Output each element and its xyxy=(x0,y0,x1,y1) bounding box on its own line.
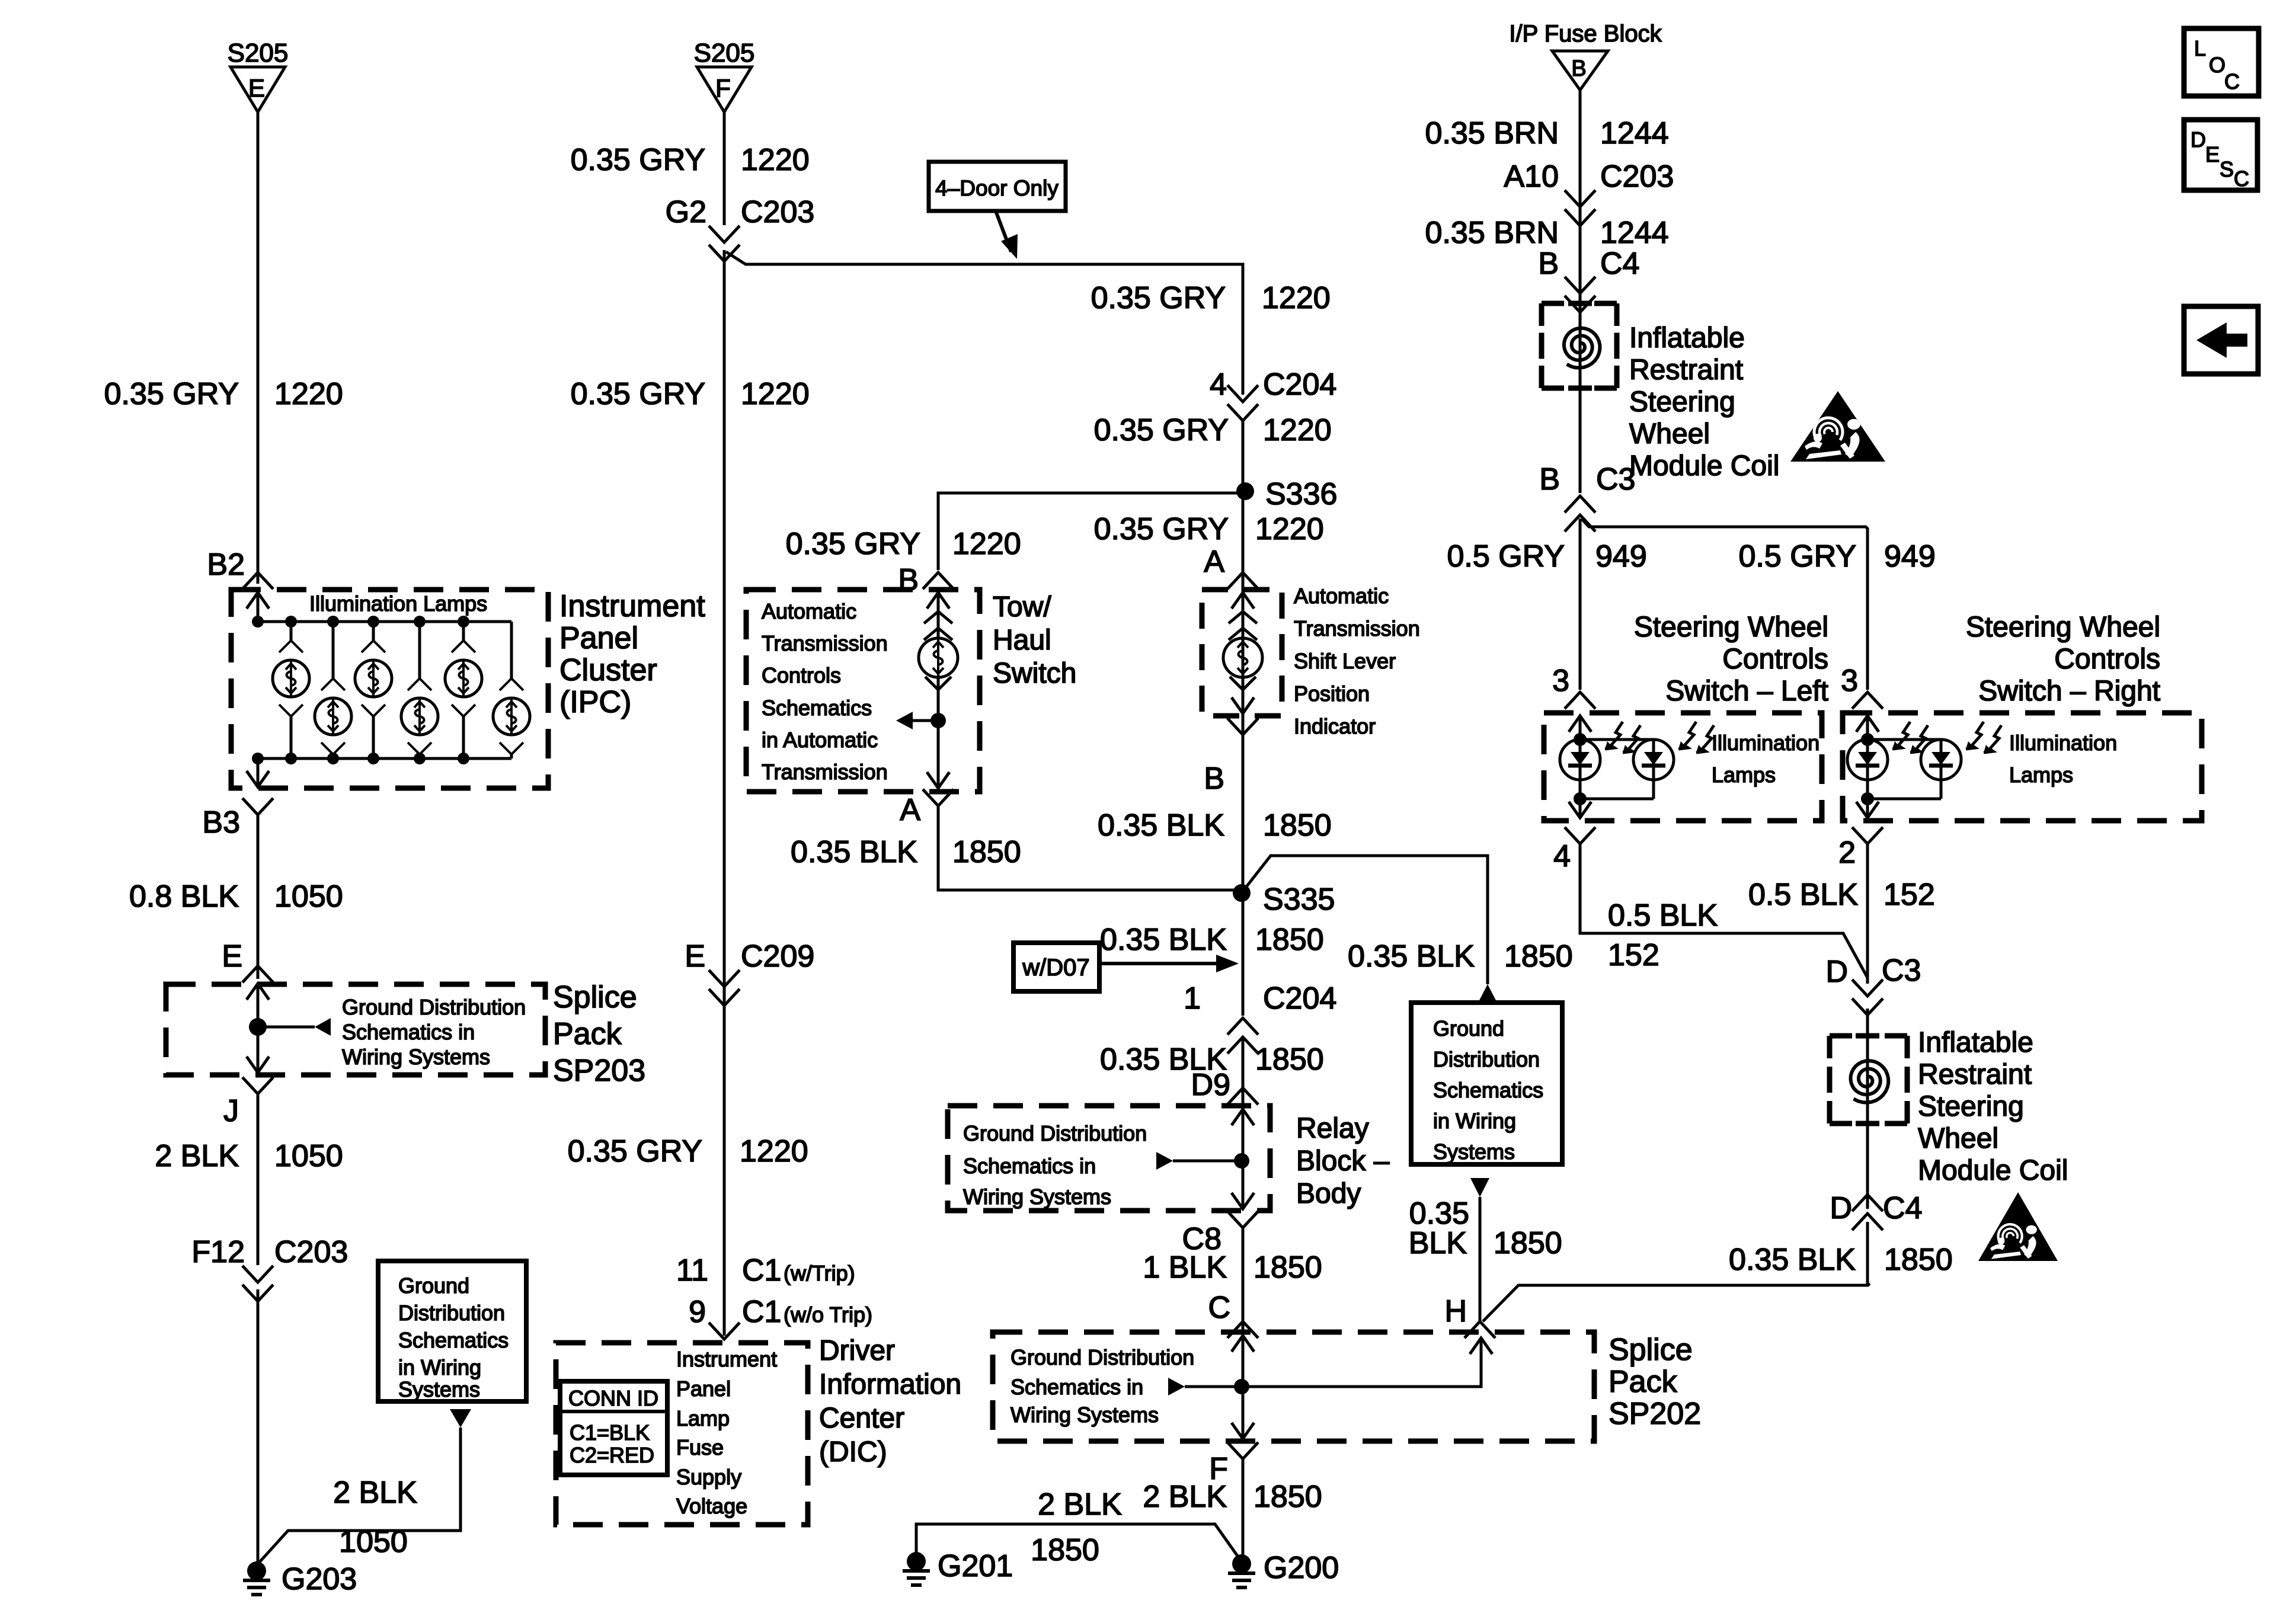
svg-text:Lamps: Lamps xyxy=(2009,763,2073,787)
svg-text:Haul: Haul xyxy=(993,625,1051,656)
svg-text:949: 949 xyxy=(1884,539,1936,574)
label H xyxy=(1444,1294,1467,1329)
svg-text:Controls: Controls xyxy=(2054,644,2160,675)
label B3 xyxy=(202,805,240,840)
left switch wire to D C3 xyxy=(1580,844,1868,978)
label 0.35 BRN 1244 (2nd) xyxy=(1425,216,1669,250)
svg-text:E: E xyxy=(248,74,265,102)
svg-text:1220: 1220 xyxy=(274,377,343,411)
svg-text:0.35 BLK: 0.35 BLK xyxy=(1729,1243,1856,1277)
svg-text:1850: 1850 xyxy=(1263,808,1332,843)
label 0.35 GRY 1220 (tow/haul) xyxy=(786,527,1021,561)
svg-text:Module Coil: Module Coil xyxy=(1918,1155,2068,1186)
label 2 BLK 1850 (G200) xyxy=(1143,1480,1322,1514)
connector chevron B3 xyxy=(242,798,273,815)
svg-text:C: C xyxy=(2234,167,2249,191)
label F12 C203 xyxy=(191,1235,348,1269)
svg-text:4: 4 xyxy=(1210,367,1227,402)
connector C203 double chevron (G2) xyxy=(709,226,740,261)
label 1850 (G201 wire) xyxy=(1031,1533,1099,1567)
Ground Distribution dashed box (relay) xyxy=(948,1106,1270,1211)
label 11 C1 (w/Trip) xyxy=(676,1253,855,1288)
svg-text:A10: A10 xyxy=(1504,159,1559,194)
label Illumination Lamps (left switch) xyxy=(1712,731,1819,787)
svg-text:1 BLK: 1 BLK xyxy=(1143,1250,1227,1285)
svg-text:Illumination: Illumination xyxy=(2009,731,2117,755)
svg-text:2 BLK: 2 BLK xyxy=(1143,1480,1227,1514)
svg-text:1220: 1220 xyxy=(740,1134,808,1169)
text Automatic Transmission Controls Schematics in Automatic Transmission xyxy=(762,599,888,784)
svg-text:C2=RED: C2=RED xyxy=(570,1443,654,1467)
label 0.35 GRY 1220 (F top) xyxy=(571,143,810,177)
svg-text:E: E xyxy=(2205,142,2220,167)
svg-text:1850: 1850 xyxy=(1031,1533,1099,1567)
relay wire arrows + junction xyxy=(1156,1109,1254,1209)
connector C203 double chevron (A10) xyxy=(1565,190,1595,226)
svg-text:D: D xyxy=(1830,1191,1852,1225)
svg-text:Cluster: Cluster xyxy=(559,653,657,687)
svg-text:Schematics in: Schematics in xyxy=(342,1020,475,1044)
svg-text:SP203: SP203 xyxy=(553,1054,645,1088)
svg-text:Supply: Supply xyxy=(676,1465,741,1489)
svg-text:Ground Distribution: Ground Distribution xyxy=(342,995,526,1019)
label 0.35 BLK 1850 (relay in) xyxy=(1100,1042,1324,1077)
svg-text:S205: S205 xyxy=(694,39,755,68)
svg-text:Driver: Driver xyxy=(819,1335,895,1366)
label C xyxy=(1208,1291,1230,1325)
wire B3 to E xyxy=(257,815,260,979)
svg-text:S336: S336 xyxy=(1265,477,1337,511)
label Illumination Lamps (right switch) xyxy=(2009,731,2117,787)
label 0.35 BRN 1244 (top) xyxy=(1425,116,1669,151)
label A (tow/haul out) xyxy=(900,793,920,827)
label 0.35 GRY 1220 (below S336) xyxy=(1094,512,1324,546)
svg-text:Instrument: Instrument xyxy=(676,1347,777,1371)
SP202 main wire arrows xyxy=(1232,1336,1254,1439)
svg-text:3: 3 xyxy=(1552,664,1569,698)
connector chevron 3 left xyxy=(1565,692,1595,709)
label 0.35 BLK 1850 (tow/haul out) xyxy=(791,835,1021,869)
label B (shift lever) xyxy=(1204,761,1224,796)
svg-text:9: 9 xyxy=(689,1295,706,1329)
connector chevron J xyxy=(242,1077,273,1094)
svg-text:O: O xyxy=(2209,53,2225,77)
connector chevron F (G200) xyxy=(1227,1442,1258,1459)
wire shift lever to S335 xyxy=(1242,735,1245,1016)
svg-text:1050: 1050 xyxy=(274,879,343,914)
splice S335 xyxy=(1233,882,1335,917)
svg-text:w/D07: w/D07 xyxy=(1022,955,1089,981)
svg-text:Schematics in: Schematics in xyxy=(1011,1375,1143,1399)
label Tow/ Haul Switch xyxy=(993,591,1076,689)
svg-text:Shift Lever: Shift Lever xyxy=(1294,649,1396,673)
svg-text:F12: F12 xyxy=(191,1235,245,1269)
svg-text:D: D xyxy=(2191,127,2206,152)
svg-text:0.35 GRY: 0.35 GRY xyxy=(571,377,705,411)
svg-text:0.35 BLK: 0.35 BLK xyxy=(791,835,917,869)
connector C209 double chevron xyxy=(709,970,740,1006)
svg-text:Steering: Steering xyxy=(1918,1091,2024,1122)
svg-text:J: J xyxy=(223,1094,239,1128)
label 4 xyxy=(1553,839,1571,873)
svg-text:C1: C1 xyxy=(742,1253,781,1288)
label 3 (left) xyxy=(1552,664,1569,698)
label Inflatable Restraint Steering Wheel Module Coil (2) xyxy=(1918,1027,2068,1186)
svg-text:C: C xyxy=(2224,69,2240,94)
svg-text:152: 152 xyxy=(1608,938,1659,972)
ground G200 xyxy=(1228,1551,1339,1587)
wire C8 to C xyxy=(1242,1228,1245,1331)
svg-text:1220: 1220 xyxy=(1255,512,1324,546)
svg-text:S: S xyxy=(2220,157,2234,181)
svg-text:Splice: Splice xyxy=(553,980,637,1014)
label Splice Pack SP203 xyxy=(553,980,645,1088)
svg-text:Wheel: Wheel xyxy=(1918,1123,1998,1154)
DIC dashed box xyxy=(556,1343,808,1525)
connector chevron E xyxy=(242,966,273,982)
svg-text:Ground Distribution: Ground Distribution xyxy=(1011,1345,1194,1369)
svg-text:Ground: Ground xyxy=(398,1273,469,1298)
SP203 junction dot + ref arrow xyxy=(249,1018,331,1036)
svg-text:Center: Center xyxy=(819,1403,904,1434)
svg-text:A: A xyxy=(900,793,920,827)
svg-text:0.35 BLK: 0.35 BLK xyxy=(1098,808,1224,843)
arrow into SP203 xyxy=(247,984,269,1027)
label B C4 xyxy=(1538,247,1639,281)
svg-text:0.35 GRY: 0.35 GRY xyxy=(104,377,239,411)
svg-text:B: B xyxy=(1204,761,1224,796)
svg-text:(w/Trip): (w/Trip) xyxy=(784,1261,855,1285)
wire coil 2 to H xyxy=(1868,1222,1870,1285)
coil 1 spiral xyxy=(1564,328,1600,368)
svg-text:Illumination: Illumination xyxy=(1712,731,1819,755)
svg-text:1850: 1850 xyxy=(1253,1480,1322,1514)
svg-text:1850: 1850 xyxy=(1255,1042,1324,1077)
label 0.5 GRY 949 (left) xyxy=(1447,539,1647,574)
label D C3 (coil 2) xyxy=(1825,953,1921,989)
svg-text:Automatic: Automatic xyxy=(762,599,856,623)
svg-text:Block –: Block – xyxy=(1296,1145,1390,1177)
connector chevron C8 xyxy=(1227,1211,1258,1228)
svg-text:3: 3 xyxy=(1841,664,1858,698)
svg-text:S205: S205 xyxy=(228,39,289,68)
label Ground Distribution Schematics in Wiring Systems (SP203) xyxy=(342,995,526,1069)
label 0.35 BLK 1850 (branch) xyxy=(1348,939,1573,974)
label 0.5 GRY 949 (right) xyxy=(1739,539,1936,574)
label B2 xyxy=(207,548,245,582)
label B C3 xyxy=(1539,462,1635,497)
text Ground Distribution Schematics in Wiring Systems (bottom left) xyxy=(398,1273,509,1401)
svg-text:E: E xyxy=(222,939,242,974)
svg-text:B: B xyxy=(1539,462,1560,497)
svg-text:in Wiring: in Wiring xyxy=(1433,1109,1516,1133)
label G2 C203 xyxy=(666,195,815,229)
label Illumination Lamps xyxy=(309,591,487,616)
label A (shift lever) xyxy=(1204,545,1224,579)
wire F below C203 xyxy=(723,250,726,1336)
svg-text:Wiring Systems: Wiring Systems xyxy=(1011,1403,1159,1427)
svg-text:0.5 BLK: 0.5 BLK xyxy=(1748,878,1858,912)
svg-text:CONN ID: CONN ID xyxy=(568,1386,658,1410)
svg-text:Body: Body xyxy=(1296,1178,1361,1209)
svg-text:0.35 GRY: 0.35 GRY xyxy=(1094,512,1229,546)
label 0.35 BLK 1850 (H wire) xyxy=(1729,1243,1953,1277)
svg-text:Relay: Relay xyxy=(1296,1113,1369,1144)
svg-text:Lamp: Lamp xyxy=(676,1406,730,1430)
connector chevron B (shift lever out) xyxy=(1227,718,1258,735)
svg-text:B: B xyxy=(1571,56,1586,81)
svg-text:E: E xyxy=(685,939,705,974)
connector C204 double chevron (4) xyxy=(1227,385,1258,421)
svg-text:1: 1 xyxy=(1184,981,1201,1016)
w/D07 arrow xyxy=(1099,955,1239,972)
connector Y into DIC xyxy=(709,1323,740,1339)
svg-text:G201: G201 xyxy=(938,1549,1013,1583)
label Steering Wheel Controls Switch - Left xyxy=(1634,612,1828,707)
shift lever indicator lamp branch xyxy=(1223,593,1262,713)
svg-text:C203: C203 xyxy=(1600,159,1674,194)
wire S336 to Tow/Haul riser xyxy=(938,493,1244,570)
label 2 BLK (G201 wire) xyxy=(1038,1487,1122,1522)
text Ground Distribution Schematics in Wiring Systems (relay) xyxy=(963,1121,1147,1209)
svg-text:(IPC): (IPC) xyxy=(559,685,631,719)
SP202 ref arrow + wire to H riser xyxy=(1168,1338,1492,1395)
label F xyxy=(1209,1452,1228,1486)
arrow out of IPC xyxy=(247,758,269,787)
svg-text:D9: D9 xyxy=(1191,1068,1230,1102)
wire J to F12 xyxy=(257,1094,260,1265)
connector triangle S205 E xyxy=(228,39,289,112)
svg-text:I/P Fuse Block: I/P Fuse Block xyxy=(1509,21,1662,47)
connector chevron B tow/haul xyxy=(923,572,954,589)
tow/haul junction + left ref arrow xyxy=(896,712,949,788)
svg-text:152: 152 xyxy=(1884,878,1935,912)
svg-text:Transmission: Transmission xyxy=(762,631,888,655)
IPC dashed box xyxy=(231,590,548,788)
label D C4 xyxy=(1830,1191,1922,1225)
svg-text:1850: 1850 xyxy=(1504,939,1573,974)
svg-text:2 BLK: 2 BLK xyxy=(333,1475,417,1510)
wire S335 branch right to GD box xyxy=(1243,856,1488,984)
svg-text:1220: 1220 xyxy=(952,527,1021,561)
svg-text:C203: C203 xyxy=(274,1235,348,1269)
label 2 xyxy=(1838,836,1856,870)
w/D07 callout box xyxy=(1013,943,1099,991)
svg-text:C: C xyxy=(1208,1291,1230,1325)
connector chevron A shift lever xyxy=(1227,572,1258,589)
svg-text:Automatic: Automatic xyxy=(1294,584,1389,608)
svg-text:Schematics: Schematics xyxy=(1433,1078,1543,1102)
svg-text:0.35 BLK: 0.35 BLK xyxy=(1100,923,1227,957)
svg-text:0.5 GRY: 0.5 GRY xyxy=(1739,539,1856,574)
svg-text:Distribution: Distribution xyxy=(398,1301,505,1325)
arrow to Ground Distribution box (left) xyxy=(450,1409,471,1427)
text Ground Distribution Schematics in Wiring Systems (SP202) xyxy=(1011,1345,1194,1427)
SIR warning triangle 1 xyxy=(1790,391,1885,462)
svg-text:C1=BLK: C1=BLK xyxy=(570,1420,650,1445)
svg-text:C209: C209 xyxy=(741,939,814,974)
svg-text:Fuse: Fuse xyxy=(676,1435,724,1459)
svg-text:Schematics: Schematics xyxy=(762,696,872,720)
label D9 xyxy=(1191,1068,1230,1102)
svg-text:C203: C203 xyxy=(741,195,814,229)
svg-text:Splice: Splice xyxy=(1609,1333,1693,1367)
label 0.5 BLK (left horizontal) xyxy=(1608,898,1718,972)
callout arrow xyxy=(996,211,1018,259)
svg-text:Switch – Right: Switch – Right xyxy=(1978,676,2160,707)
connector chevron A (tow/haul out) xyxy=(923,789,954,806)
arrow into IPC xyxy=(247,593,269,622)
svg-text:A: A xyxy=(1204,545,1224,579)
label Inflatable Restraint Steering Wheel Module Coil (1) xyxy=(1629,322,1779,482)
svg-text:2 BLK: 2 BLK xyxy=(1038,1487,1122,1522)
connector C204 double chevron (1) xyxy=(1227,1018,1258,1054)
svg-text:Illumination Lamps: Illumination Lamps xyxy=(309,591,487,616)
svg-text:Panel: Panel xyxy=(676,1377,731,1401)
svg-text:949: 949 xyxy=(1595,539,1647,574)
connector triangle I/P fuse block B xyxy=(1552,51,1608,90)
svg-text:Controls: Controls xyxy=(762,663,841,687)
svg-text:Ground: Ground xyxy=(1433,1016,1504,1041)
Steering Wheel Controls Switch Right dashed box + LED illumination lamps xyxy=(1843,713,2202,821)
svg-text:1850: 1850 xyxy=(1255,923,1324,957)
connector triangle S205 F xyxy=(694,39,755,112)
label 9 C1 (w/o Trip) xyxy=(689,1295,872,1329)
label C8 xyxy=(1182,1222,1221,1256)
label E C209 xyxy=(685,939,814,974)
text Instrument Panel Lamp Fuse Supply Voltage xyxy=(676,1347,777,1518)
Ground Distribution dashed box (SP202) xyxy=(993,1332,1594,1441)
label J xyxy=(223,1094,239,1128)
ground G203 xyxy=(243,1561,357,1596)
svg-text:4–Door Only: 4–Door Only xyxy=(935,176,1059,200)
svg-text:Restraint: Restraint xyxy=(1918,1059,2032,1090)
svg-text:C4: C4 xyxy=(1600,247,1639,281)
svg-text:Pack: Pack xyxy=(1609,1365,1678,1399)
svg-text:1244: 1244 xyxy=(1600,116,1669,151)
svg-text:1244: 1244 xyxy=(1600,216,1669,250)
svg-text:1850: 1850 xyxy=(1494,1226,1562,1260)
svg-text:Transmission: Transmission xyxy=(1294,616,1420,641)
wire G201 to G200 xyxy=(916,1524,1239,1558)
svg-text:Pack: Pack xyxy=(553,1017,622,1051)
label 1 BLK 1850 xyxy=(1143,1250,1322,1285)
svg-text:D: D xyxy=(1825,955,1848,989)
svg-text:2: 2 xyxy=(1838,836,1856,870)
label 0.35 GRY 1220 (DIC wire) xyxy=(568,1134,808,1169)
IPC lamp branch wires xyxy=(291,622,511,758)
label 1 C204 xyxy=(1184,981,1336,1016)
svg-text:Information: Information xyxy=(819,1369,961,1400)
wire F to G200 xyxy=(1242,1459,1245,1560)
svg-text:1850: 1850 xyxy=(1253,1250,1322,1285)
IPC lamps (6 illumination lamps) xyxy=(273,641,530,754)
svg-text:11: 11 xyxy=(676,1253,708,1288)
svg-text:0.35 GRY: 0.35 GRY xyxy=(571,143,705,177)
IPC top bus / bottom bus with junction dots xyxy=(252,616,511,764)
right switch wire down xyxy=(1866,844,1869,984)
label Steering Wheel Controls Switch - Right xyxy=(1966,612,2160,707)
connector chevron C xyxy=(1227,1321,1258,1338)
text Automatic Transmission Shift Lever Position Indicator xyxy=(1294,584,1420,738)
label 0.35 BLK 1850 (shift lever) xyxy=(1098,808,1332,843)
svg-text:Lamps: Lamps xyxy=(1712,763,1776,787)
Ground Distribution solid box (center) xyxy=(1411,1003,1562,1164)
svg-text:Systems: Systems xyxy=(398,1377,480,1401)
label 0.35 GRY 1220 (F mid) xyxy=(571,377,810,411)
svg-text:(DIC): (DIC) xyxy=(819,1436,887,1468)
svg-text:B: B xyxy=(1538,247,1559,281)
CONN ID table xyxy=(560,1381,667,1475)
label 0.35 GRY 1220 (above S336) xyxy=(1094,413,1332,447)
label 0.35 BLK 1850 (stacked) xyxy=(1409,1196,1562,1260)
svg-text:1220: 1220 xyxy=(1262,281,1331,315)
svg-text:0.35 BLK: 0.35 BLK xyxy=(1348,939,1475,974)
DESC legend box xyxy=(2184,120,2257,191)
label E xyxy=(222,939,242,974)
svg-text:Wheel: Wheel xyxy=(1629,418,1710,450)
label 0.35 GRY 1220 (E wire) xyxy=(104,377,343,411)
svg-text:in Automatic: in Automatic xyxy=(762,728,878,752)
LOC legend box xyxy=(2184,28,2259,96)
label 0.5 BLK 152 (right) xyxy=(1748,878,1935,912)
back arrow box xyxy=(2184,306,2258,374)
svg-text:Steering Wheel: Steering Wheel xyxy=(1966,612,2160,643)
label I/P Fuse Block xyxy=(1509,21,1662,47)
label Relay Block - Body xyxy=(1296,1113,1390,1209)
svg-text:SP202: SP202 xyxy=(1609,1397,1701,1431)
arrow into Ground Distribution box (center) xyxy=(1478,984,1497,1003)
svg-text:Transmission: Transmission xyxy=(762,760,888,784)
label A10 C203 xyxy=(1504,159,1674,194)
svg-text:Switch: Switch xyxy=(993,658,1076,689)
svg-text:C204: C204 xyxy=(1263,981,1336,1016)
svg-text:0.35 BRN: 0.35 BRN xyxy=(1425,116,1559,151)
label 0.35 GRY 1220 (4-door) xyxy=(1091,281,1331,315)
svg-text:1850: 1850 xyxy=(952,835,1021,869)
Inflatable Restraint coil 2 dashed box xyxy=(1830,1036,1907,1124)
Splice Pack SP203 dashed box xyxy=(166,984,545,1075)
svg-text:C1: C1 xyxy=(742,1295,781,1329)
svg-text:1220: 1220 xyxy=(741,377,810,411)
svg-text:0.35 GRY: 0.35 GRY xyxy=(786,527,920,561)
branch to right switch xyxy=(1581,518,1868,690)
connector chevron B2 xyxy=(242,572,273,589)
4-Door Only callout box xyxy=(929,162,1066,211)
svg-text:Indicator: Indicator xyxy=(1294,714,1376,738)
svg-text:Restraint: Restraint xyxy=(1629,354,1743,386)
svg-text:0.35 GRY: 0.35 GRY xyxy=(568,1134,702,1169)
label 3 (right) xyxy=(1841,664,1858,698)
svg-text:B2: B2 xyxy=(207,548,245,582)
svg-text:Steering Wheel: Steering Wheel xyxy=(1634,612,1828,643)
svg-text:Inflatable: Inflatable xyxy=(1629,322,1745,354)
label 2 BLK 1050 (J wire) xyxy=(155,1139,343,1173)
svg-text:Systems: Systems xyxy=(1433,1140,1515,1164)
arrow out of SP203 xyxy=(247,1027,269,1073)
wire C204 to S336 xyxy=(1242,420,1245,886)
connector C203 double chevron (F12) xyxy=(242,1266,273,1301)
wire GD box to H xyxy=(1470,1178,1489,1323)
svg-text:(w/o Trip): (w/o Trip) xyxy=(784,1302,872,1327)
text Ground Distribution Schematics in Wiring Systems (center) xyxy=(1433,1016,1543,1164)
label Splice Pack SP202 xyxy=(1609,1333,1701,1431)
svg-text:C3: C3 xyxy=(1596,462,1635,497)
svg-text:0.5 GRY: 0.5 GRY xyxy=(1447,539,1565,574)
svg-text:Ground Distribution: Ground Distribution xyxy=(963,1121,1147,1145)
svg-text:Voltage: Voltage xyxy=(676,1494,747,1518)
svg-text:Instrument: Instrument xyxy=(559,589,705,623)
